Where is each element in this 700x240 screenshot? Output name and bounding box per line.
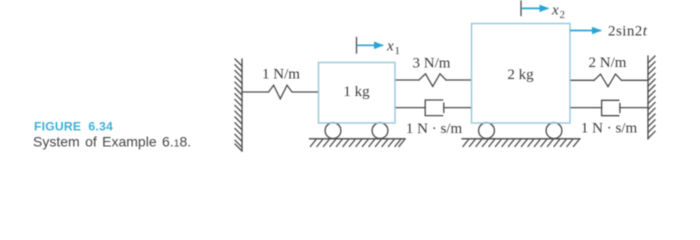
svg-text:1 N/m: 1 N/m <box>262 66 300 82</box>
label 1 N·s/m left <box>406 121 463 137</box>
damper C1 (1 N·s/m) cylinder <box>425 100 444 116</box>
label 3 N/m <box>413 56 451 72</box>
caption FIGURE 6.34 <box>34 120 113 134</box>
svg-text:1 N · s/m: 1 N · s/m <box>406 121 463 137</box>
x2 displacement arrow <box>522 7 549 9</box>
svg-text:2: 2 <box>560 9 566 21</box>
label 2 kg <box>507 67 534 83</box>
spring K3 (3 N/m) <box>419 74 446 87</box>
label 2 N/m <box>589 55 627 71</box>
svg-text:System of Example 6.18.: System of Example 6.18. <box>33 134 191 150</box>
wire mass1-to-mass2 top <box>395 79 419 81</box>
damper C2 (1 N·s/m) cylinder <box>602 100 620 115</box>
wire mass1-to-damper <box>395 107 425 109</box>
spring K1 (1 N/m) with wires <box>242 85 319 99</box>
spring K2 (2 N/m) <box>594 74 622 87</box>
label x2 <box>551 3 565 22</box>
right wall <box>648 56 655 139</box>
wheel mass1 left <box>325 123 341 139</box>
wire damper-to-mass2 <box>444 107 472 109</box>
label 1 N·s/m right <box>581 121 638 137</box>
svg-text:x: x <box>551 3 559 19</box>
svg-text:1 N · s/m: 1 N · s/m <box>581 121 638 137</box>
label x1 <box>386 39 400 58</box>
wheel mass2 right <box>546 123 562 139</box>
label 2sin2t <box>608 24 648 40</box>
svg-text:2 kg: 2 kg <box>507 67 534 83</box>
ground under mass2 <box>462 139 580 147</box>
svg-text:FIGURE 6.34: FIGURE 6.34 <box>34 120 113 134</box>
force arrow 2sin2t <box>570 30 601 32</box>
mass M2 box <box>472 24 571 124</box>
svg-text:1: 1 <box>395 45 401 57</box>
wire damper-to-right-wall <box>620 107 648 109</box>
ground under mass1 <box>310 139 406 147</box>
x1 displacement arrow <box>357 44 383 46</box>
wheel mass1 right <box>372 123 388 139</box>
wire spring-to-mass2 <box>446 79 472 81</box>
mass M1 box <box>319 63 396 124</box>
svg-text:2 N/m: 2 N/m <box>589 55 627 71</box>
label 1 kg <box>343 84 370 100</box>
svg-text:1 kg: 1 kg <box>343 84 370 100</box>
svg-text:3 N/m: 3 N/m <box>413 56 451 72</box>
caption System of Example 6.18. <box>33 134 191 150</box>
wire mass2-to-damper right <box>570 107 602 109</box>
x1 reference tick <box>356 38 358 54</box>
wheel mass2 left <box>479 123 495 139</box>
svg-text:x: x <box>386 39 394 55</box>
svg-text:2sin2t: 2sin2t <box>608 24 648 40</box>
wire spring-to-right-wall <box>622 79 649 81</box>
label 1 N/m <box>262 66 300 82</box>
wire mass2-to-spring right <box>570 79 594 81</box>
left wall <box>235 59 242 151</box>
x2 reference tick <box>520 1 522 16</box>
